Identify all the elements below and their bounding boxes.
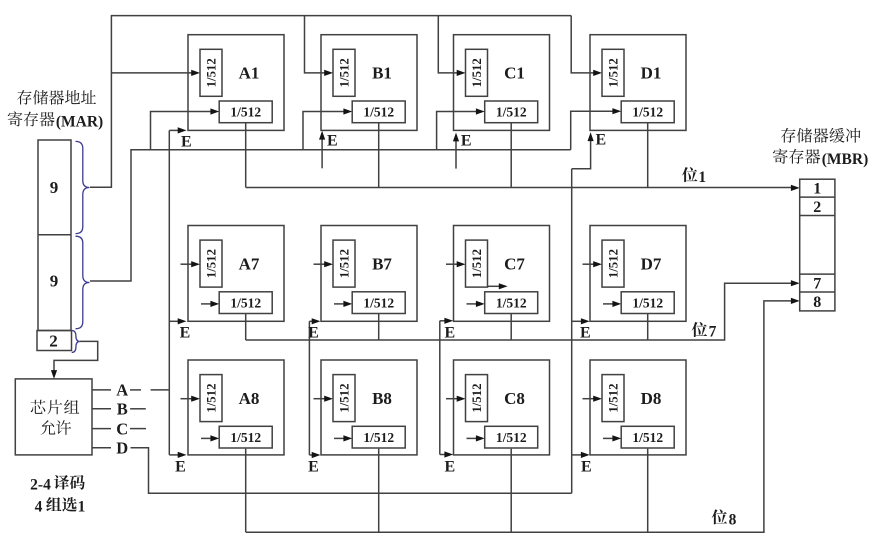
svg-text:B7: B7 bbox=[372, 254, 392, 273]
svg-text:D7: D7 bbox=[641, 254, 662, 273]
chip C7 row-address 1/512 box bbox=[466, 240, 488, 287]
svg-text:D1: D1 bbox=[641, 64, 662, 83]
E arrow B7 bbox=[309, 320, 314, 322]
chip B1 column-address 1/512 box bbox=[352, 101, 405, 123]
svg-text:1/512: 1/512 bbox=[205, 58, 219, 87]
chip A1 column-address 1/512 box bbox=[219, 101, 272, 123]
chip A7 row feed stub bbox=[181, 263, 194, 265]
svg-text:1/512: 1/512 bbox=[496, 105, 527, 120]
svg-text:1/512: 1/512 bbox=[363, 295, 394, 310]
wire top bus drop to D1 bbox=[571, 16, 595, 73]
select output B bbox=[92, 408, 111, 410]
MAR cell 2 box bbox=[37, 331, 72, 351]
svg-text:D: D bbox=[116, 439, 128, 458]
svg-text:C: C bbox=[116, 419, 128, 438]
chip C1 box bbox=[454, 35, 550, 131]
svg-text:A8: A8 bbox=[239, 389, 260, 408]
column bus riser to C1 bbox=[437, 112, 479, 150]
chip D1 column-address 1/512 box bbox=[621, 101, 674, 123]
svg-text:E: E bbox=[444, 324, 455, 341]
chip B8 column-address 1/512 box bbox=[352, 426, 405, 448]
column bus riser to A1 bbox=[151, 112, 213, 150]
svg-text:B8: B8 bbox=[372, 389, 392, 408]
E arrow A1 bbox=[169, 129, 180, 131]
chip A7 column-address 1/512 box bbox=[219, 292, 272, 314]
svg-text:E: E bbox=[175, 458, 186, 475]
chip A8 box bbox=[188, 360, 284, 455]
chip B8 box bbox=[321, 360, 417, 455]
svg-text:E: E bbox=[444, 458, 455, 475]
svg-text:1: 1 bbox=[78, 499, 86, 516]
select output D bbox=[92, 447, 111, 449]
MAR divider bbox=[38, 234, 71, 236]
svg-text:1/512: 1/512 bbox=[607, 384, 621, 413]
chip D7 row-address 1/512 box bbox=[602, 240, 624, 287]
svg-text:A: A bbox=[116, 381, 128, 400]
bit line 1 bbox=[245, 123, 247, 188]
svg-text:E: E bbox=[181, 134, 192, 151]
chip C7 row feed stub bbox=[446, 263, 459, 265]
chip B7 row feed stub bbox=[314, 263, 327, 265]
chip C8 col feed stub bbox=[467, 437, 479, 439]
chip B8 col feed stub bbox=[334, 437, 346, 439]
svg-text:E: E bbox=[580, 324, 591, 341]
svg-text:C7: C7 bbox=[504, 254, 525, 273]
chip C8 row feed stub bbox=[446, 398, 459, 400]
brace lower 9 bbox=[76, 236, 90, 329]
chip C8 row-address 1/512 box bbox=[466, 375, 488, 422]
svg-text:1/512: 1/512 bbox=[470, 58, 484, 87]
chip A8 col feed stub bbox=[201, 437, 213, 439]
svg-text:9: 9 bbox=[50, 178, 59, 197]
chip A8 row feed stub bbox=[181, 398, 194, 400]
chip D7 row feed stub bbox=[583, 263, 596, 265]
svg-text:8: 8 bbox=[813, 294, 821, 311]
chip D7 box bbox=[590, 226, 686, 322]
chip A7 col feed stub bbox=[201, 303, 213, 305]
svg-text:1/512: 1/512 bbox=[496, 430, 527, 445]
label bit 7 bbox=[692, 322, 707, 337]
E arrow D8 bbox=[572, 454, 584, 456]
label MBR register text bbox=[781, 128, 796, 143]
arrow into decoder bbox=[51, 370, 57, 379]
chip D8 row-address 1/512 box bbox=[602, 375, 624, 422]
svg-text:C1: C1 bbox=[504, 64, 525, 83]
svg-text:2: 2 bbox=[49, 331, 58, 350]
E arrow D1 elbow up bbox=[572, 139, 591, 169]
svg-text:9: 9 bbox=[50, 272, 59, 291]
wire top bus drop to C1 bbox=[438, 16, 459, 73]
chip D8 row feed stub bbox=[583, 398, 596, 400]
chip C8 column-address 1/512 box bbox=[485, 426, 538, 448]
svg-text:1/512: 1/512 bbox=[632, 430, 663, 445]
E arrow C8 bbox=[440, 454, 447, 456]
svg-text:E: E bbox=[180, 324, 191, 341]
svg-text:B1: B1 bbox=[372, 64, 392, 83]
select A vertical line bbox=[168, 130, 170, 455]
svg-text:1/512: 1/512 bbox=[470, 249, 484, 278]
chip D7 col feed stub bbox=[603, 303, 615, 305]
wire MAR lower-9 to column bus bbox=[90, 150, 571, 281]
select output C bbox=[92, 428, 111, 430]
wire MAR upper-9 to top bus bbox=[90, 16, 571, 188]
chip C7 box bbox=[454, 226, 550, 322]
chip A8 column-address 1/512 box bbox=[219, 426, 272, 448]
svg-text:E: E bbox=[327, 133, 338, 150]
svg-text:1/512: 1/512 bbox=[230, 105, 261, 120]
svg-text:1/512: 1/512 bbox=[632, 105, 663, 120]
chip C1 column-address 1/512 box bbox=[485, 101, 538, 123]
svg-text:7: 7 bbox=[709, 324, 717, 341]
chip C1 row-address 1/512 box bbox=[466, 49, 488, 96]
column bus riser to B1 bbox=[303, 112, 346, 150]
chip A1 row-address 1/512 box bbox=[200, 49, 222, 96]
select output A bbox=[92, 389, 111, 391]
chip B8 row-address 1/512 box bbox=[333, 375, 355, 422]
select D route down and right bbox=[131, 448, 572, 493]
svg-text:1/512: 1/512 bbox=[632, 295, 663, 310]
svg-text:1/512: 1/512 bbox=[496, 295, 527, 310]
svg-text:E: E bbox=[461, 133, 472, 150]
chip C7 col feed stub bbox=[467, 303, 479, 305]
svg-text:1/512: 1/512 bbox=[470, 384, 484, 413]
chip B8 row feed stub bbox=[314, 398, 327, 400]
chip C7 column-address 1/512 box bbox=[485, 292, 538, 314]
wire top bus drop to B1 bbox=[305, 16, 327, 73]
svg-text:4: 4 bbox=[35, 499, 43, 516]
svg-text:E: E bbox=[581, 458, 592, 475]
svg-text:A7: A7 bbox=[239, 254, 260, 273]
svg-text:(MBR): (MBR) bbox=[822, 151, 869, 168]
column bus riser to D1 bbox=[571, 111, 615, 150]
bit line 7 bbox=[245, 314, 247, 340]
E arrow B8 bbox=[309, 454, 314, 456]
chip C7 extra arrow bbox=[488, 285, 502, 287]
svg-text:A1: A1 bbox=[239, 64, 260, 83]
E arrow A7 bbox=[169, 320, 180, 322]
svg-text:1/512: 1/512 bbox=[338, 249, 352, 278]
svg-text:1/512: 1/512 bbox=[607, 58, 621, 87]
MBR box bbox=[800, 179, 835, 311]
svg-text:1/512: 1/512 bbox=[338, 384, 352, 413]
svg-text:(MAR): (MAR) bbox=[56, 114, 103, 131]
svg-text:1: 1 bbox=[813, 181, 821, 198]
E arrow C7 bbox=[440, 320, 447, 322]
brace upper 9 bbox=[76, 141, 90, 233]
chip A7 box bbox=[188, 226, 284, 322]
chip A8 row-address 1/512 box bbox=[200, 375, 222, 422]
chip B7 column-address 1/512 box bbox=[352, 292, 405, 314]
chip B7 box bbox=[321, 226, 417, 322]
brace cell 2 bbox=[72, 331, 80, 353]
chip A7 row-address 1/512 box bbox=[200, 240, 222, 287]
svg-text:2-4: 2-4 bbox=[30, 476, 51, 493]
chip B7 col feed stub bbox=[334, 303, 346, 305]
label bit 1 bbox=[682, 167, 697, 182]
bit line 8 bbox=[245, 449, 247, 533]
svg-text:1/512: 1/512 bbox=[205, 249, 219, 278]
E arrow C1 floating bbox=[455, 139, 457, 169]
svg-text:8: 8 bbox=[729, 511, 737, 528]
svg-text:1/512: 1/512 bbox=[607, 249, 621, 278]
chip B7 row-address 1/512 box bbox=[333, 240, 355, 287]
select B vertical line bbox=[308, 321, 310, 455]
MAR register box bbox=[38, 140, 71, 331]
select D vertical line bbox=[571, 169, 573, 494]
chip D1 box bbox=[590, 35, 686, 131]
E arrow B1 floating bbox=[321, 137, 323, 168]
svg-text:1/512: 1/512 bbox=[338, 58, 352, 87]
svg-text:1/512: 1/512 bbox=[230, 430, 261, 445]
label MAR register text bbox=[17, 90, 31, 105]
svg-text:D8: D8 bbox=[641, 389, 662, 408]
chip A1 box bbox=[188, 35, 284, 131]
svg-text:1/512: 1/512 bbox=[230, 295, 261, 310]
chip D8 column-address 1/512 box bbox=[621, 426, 674, 448]
decoder box 芯片组允许 bbox=[15, 379, 92, 455]
chip D7 column-address 1/512 box bbox=[621, 292, 674, 314]
chip D8 col feed stub bbox=[603, 437, 615, 439]
svg-text:B: B bbox=[117, 400, 128, 419]
svg-text:1/512: 1/512 bbox=[363, 105, 394, 120]
svg-text:7: 7 bbox=[813, 276, 821, 293]
svg-text:1: 1 bbox=[698, 169, 706, 186]
decoder wire from 2-bit field bbox=[54, 341, 98, 372]
MBR cell dividers bbox=[800, 196, 835, 198]
chip D1 row-address 1/512 box bbox=[602, 49, 624, 96]
label bit 8 bbox=[712, 509, 727, 524]
svg-text:E: E bbox=[308, 324, 319, 341]
svg-text:1/512: 1/512 bbox=[363, 430, 394, 445]
select C vertical line bbox=[439, 321, 441, 455]
svg-text:E: E bbox=[308, 458, 319, 475]
svg-text:E: E bbox=[595, 132, 606, 149]
E arrow A8 bbox=[169, 454, 180, 456]
svg-text:C8: C8 bbox=[504, 389, 525, 408]
svg-text:2: 2 bbox=[813, 199, 821, 216]
chip B1 box bbox=[321, 35, 417, 131]
chip C8 box bbox=[454, 360, 550, 455]
svg-text:1/512: 1/512 bbox=[205, 384, 219, 413]
chip B1 row-address 1/512 box bbox=[333, 49, 355, 96]
chip D8 box bbox=[590, 360, 686, 455]
E arrow D7 bbox=[572, 320, 584, 322]
wire top bus branch to A1 bbox=[111, 72, 193, 74]
